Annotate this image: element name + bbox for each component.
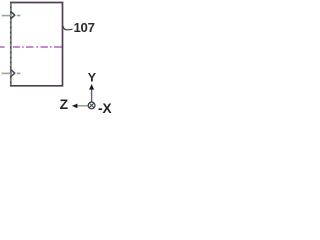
arrow top: trailing dash	[17, 15, 21, 17]
triad origin circle with X (axis into page)	[88, 102, 95, 109]
left edge green dashed overlay	[10, 3, 12, 85]
leader hook to label 107	[63, 27, 72, 30]
arrow top: chevron head	[11, 12, 15, 19]
arrow bottom: chevron head	[11, 70, 15, 77]
svg-text:107: 107	[74, 20, 95, 35]
svg-text:Y: Y	[88, 70, 97, 84]
plate 107 outline	[11, 3, 63, 86]
triad Y axis shaft	[91, 89, 93, 101]
arrow (load) bottom: stem	[2, 72, 11, 74]
svg-text:-X: -X	[98, 101, 112, 116]
centerline (magenta dash-dot symmetry axis)	[0, 46, 63, 48]
svg-text:Z: Z	[60, 97, 69, 112]
arrow bottom: trailing dash	[17, 72, 21, 74]
triad Y arrowhead	[89, 84, 94, 90]
triad Z arrowhead	[72, 104, 78, 109]
triad Z axis shaft	[77, 105, 88, 107]
arrow (load) top: stem	[2, 15, 11, 17]
